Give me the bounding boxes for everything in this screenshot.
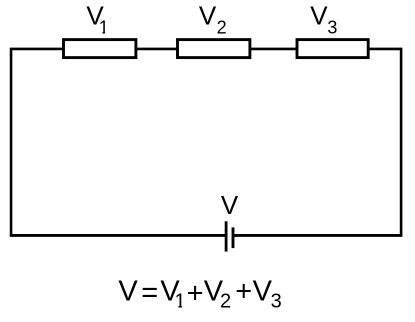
svg-text:1: 1 xyxy=(175,290,186,312)
wire: bottom right segment xyxy=(233,234,402,237)
svg-text:+: + xyxy=(187,277,204,309)
svg-text:3: 3 xyxy=(271,290,282,312)
resistor V1 xyxy=(64,40,136,58)
svg-text:3: 3 xyxy=(327,18,337,38)
svg-text:V: V xyxy=(199,1,217,31)
battery V: short plate xyxy=(232,227,235,248)
svg-text:1: 1 xyxy=(99,18,109,38)
wire: left + top + right loop xyxy=(11,49,401,236)
wire: bottom left segment xyxy=(10,234,226,237)
svg-text:V: V xyxy=(310,1,328,31)
label V2 xyxy=(199,1,227,38)
svg-text:2: 2 xyxy=(217,18,227,38)
svg-text:V: V xyxy=(221,190,239,220)
resistor V2 xyxy=(178,40,250,58)
svg-text:V: V xyxy=(118,276,138,308)
label V3 xyxy=(310,1,337,38)
svg-text:V: V xyxy=(253,276,273,308)
equation V = V1 + V2 + V3 xyxy=(118,276,281,313)
svg-text:2: 2 xyxy=(220,290,231,312)
resistor V3 xyxy=(297,40,368,58)
label V1 xyxy=(86,1,108,38)
battery V: long plate xyxy=(225,221,228,251)
svg-text:+: + xyxy=(235,276,252,308)
svg-text:=: = xyxy=(141,277,158,309)
